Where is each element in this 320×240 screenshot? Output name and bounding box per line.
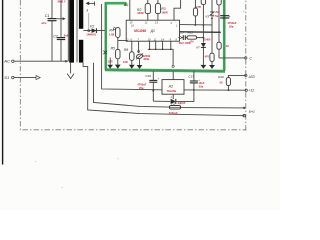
svg-text:R3: R3: [161, 7, 165, 11]
svg-text:R11: R11: [188, 31, 194, 35]
svg-text:F2: F2: [171, 102, 175, 106]
svg-text:R6: R6: [124, 48, 128, 52]
svg-text:2200К: 2200К: [143, 54, 151, 58]
svg-text:C2: C2: [53, 34, 58, 38]
regulator A2: [162, 72, 184, 100]
node circle above green bus: [172, 65, 174, 67]
svg-text:V3: V3: [205, 14, 209, 18]
svg-text:2NB Y: 2NB Y: [58, 0, 66, 3]
svg-text:Б/ч2: Б/ч2: [249, 109, 255, 113]
svg-text:C17: C17: [188, 74, 194, 78]
svg-text:78L05в: 78L05в: [167, 89, 177, 93]
wire A2 output line to +12 terminal: [184, 89, 246, 91]
photoresistor mark on green wire: [103, 51, 110, 65]
svg-text:+5в: +5в: [214, 10, 219, 14]
svg-text:25в: 25в: [199, 84, 204, 88]
wire secondary to F2 line: [94, 63, 245, 108]
capacitor C16: [137, 71, 159, 101]
wire IC pin1 row: [180, 24, 213, 26]
svg-text:100в: 100в: [143, 57, 149, 61]
svg-text:10uF: 10uF: [198, 81, 204, 85]
svg-text:1N4001: 1N4001: [86, 32, 96, 36]
capacitor C2: [53, 0, 69, 61]
wire rectified feed to A2: [102, 4, 162, 90]
svg-text:1Н60: 1Н60: [204, 37, 211, 41]
resistor R3: [155, 0, 167, 20]
svg-text:AC: AC: [3, 59, 10, 64]
node junction on AC line: [65, 60, 67, 62]
fuse F2: [169, 102, 181, 115]
wire resistor lead x195: [193, 0, 197, 25]
resistor R12: [205, 53, 215, 69]
svg-text:Д1: Д1: [150, 29, 155, 33]
trimmer capacitor C4: [136, 41, 151, 69]
svg-text:V2: V2: [90, 24, 94, 28]
node C terminal: [245, 57, 247, 59]
svg-text:А2: А2: [168, 85, 173, 89]
svg-text:12R: 12R: [123, 60, 128, 64]
svg-text:S1: S1: [4, 75, 9, 80]
node +12 terminal: [245, 89, 247, 91]
node bus junction dots: [149, 49, 172, 51]
green highlighter path: [105, 0, 225, 71]
svg-text:к7б: к7б: [190, 40, 195, 43]
wire secondary outer return line: [83, 63, 244, 116]
svg-text:V7: V7: [196, 45, 200, 49]
capacitor C1: [42, 0, 57, 61]
wire top-right step lead: [174, 0, 181, 20]
wire tick mark: [86, 9, 89, 12]
node output terminal circle: [243, 107, 245, 109]
svg-text:16в: 16в: [229, 24, 234, 28]
resistor R6: [123, 41, 135, 69]
svg-text:1.6К: 1.6К: [109, 32, 115, 36]
svg-text:5б: 5б: [220, 80, 223, 84]
wire top arrow mark: [86, 2, 94, 6]
svg-text:+: +: [229, 15, 231, 19]
svg-text:4700uF: 4700uF: [227, 21, 237, 25]
diode V8 across A2: [153, 90, 194, 105]
node AC input terminal: [3, 59, 14, 64]
capacitor C5 and resistor R11 series: [178, 31, 204, 46]
svg-text:315mA: 315mA: [169, 111, 178, 115]
svg-text:160R: 160R: [137, 11, 143, 15]
enclosure boundary left black border: [2, 0, 4, 165]
wire under green bus: [105, 0, 225, 71]
wire transformer primary lead: [67, 0, 69, 61]
svg-text:LED: LED: [249, 75, 256, 79]
wire C terminal: [219, 57, 246, 59]
svg-text:КД105: КД105: [178, 102, 186, 105]
svg-text:нFх: нFх: [42, 21, 47, 25]
enclosure boundary (dash-dot frame): [20, 0, 246, 131]
resistor R5: [108, 41, 121, 69]
ground chassis below transformer: [67, 62, 74, 78]
node return terminal circle: [243, 115, 245, 117]
capacitor C3 big filter on green wire: [220, 15, 237, 28]
svg-text:C16: C16: [145, 74, 151, 78]
svg-text:160R: 160R: [161, 11, 167, 15]
resistor R19 LED series: [218, 75, 246, 91]
faint scan specks: [35, 11, 244, 188]
transformer T1: [69, 0, 83, 63]
IC U1 (D1): [126, 20, 180, 41]
svg-text:+12: +12: [249, 89, 255, 93]
wire AC line: [14, 60, 68, 62]
diode V2: [83, 13, 104, 36]
svg-text:МС4060: МС4060: [134, 29, 146, 33]
node LED terminal: [245, 74, 247, 76]
diode V7: [196, 37, 211, 68]
svg-text:R19: R19: [218, 75, 224, 79]
wire pins 10-11-14-8 bus: [148, 41, 173, 65]
resistor R2: [137, 0, 150, 20]
node dots on pin1 row: [195, 18, 213, 26]
zener diode V3: [205, 0, 218, 53]
svg-text:470: 470: [205, 54, 210, 58]
svg-text:1К: 1К: [226, 44, 229, 48]
wire pin15 lead: [129, 0, 131, 20]
switch S1: [4, 75, 40, 80]
resistor R8 branch x219: [214, 0, 229, 58]
svg-text:25в: 25в: [139, 86, 144, 90]
svg-text:C1: C1: [45, 14, 50, 18]
svg-text:7,5в: 7,5в: [213, 14, 219, 18]
resistor R4: [109, 28, 127, 42]
svg-text:R1: R1: [125, 3, 129, 7]
ground triangle small: [107, 65, 113, 69]
svg-text:R5: R5: [111, 47, 115, 51]
capacitor C17: [188, 71, 204, 91]
wire IC pin9 row: [180, 31, 221, 34]
resistor R7 top lead: [196, 0, 206, 43]
svg-text:C5: C5: [180, 31, 184, 35]
